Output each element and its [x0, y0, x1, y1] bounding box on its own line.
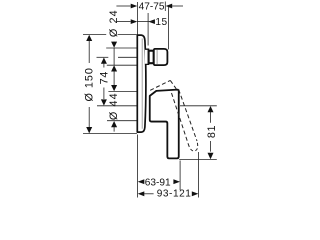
dashed lever swing: rounded tip [188, 141, 197, 151]
escutcheon plate (side view) [137, 35, 146, 132]
dashed lever swing: end edge [170, 80, 176, 89]
dimension 47-75 (top row) [116, 2, 183, 13]
wire: hub bottom extension y=120.7 [107, 120, 143, 122]
dashed lever swing: right edge [179, 90, 197, 141]
svg-text:47-75: 47-75 [139, 2, 165, 13]
wire: handle axis extension y=105.8 right [180, 105, 217, 107]
svg-text:Ø 44: Ø 44 [108, 92, 120, 120]
handle hub and lever (solid) [150, 90, 179, 159]
wire: extension line wall top x=137.4 [136, 2, 138, 35]
wire: knob axis extension y=57.3 [97, 56, 109, 58]
wire: extension line swing tip x=198.5 [198, 152, 200, 198]
svg-text:74: 74 [99, 71, 111, 85]
dashed lever swing: left edge [172, 93, 189, 144]
wire: extension line plate front x=148.1 [147, 13, 149, 46]
svg-text:81: 81 [206, 125, 218, 138]
wire: handle axis extension y=105.8 left [97, 105, 142, 107]
dimension 63-91 (bottom row 1) [138, 177, 180, 188]
diverter knob ring [149, 51, 154, 64]
diverter knob neck [145, 49, 149, 64]
diverter knob cap [154, 49, 168, 65]
svg-text:Ø 150: Ø 150 [84, 67, 96, 101]
dimension 81 (lever length, rotated) [206, 106, 218, 159]
svg-text:63-91: 63-91 [145, 177, 171, 188]
wire: hub top extension y=91.4 [108, 90, 141, 92]
wire: extension line wall bottom x=137.6 [137, 135, 139, 198]
dashed lever swing: hub top edge rotated [150, 80, 170, 90]
wire: lever bottom extension y=159.4 [179, 158, 217, 160]
dimension 93-121 (bottom row 2) [138, 189, 199, 200]
wire: plate bottom extension y=133.6 [83, 133, 137, 135]
dimension D150 (plate diameter, rotated) [84, 35, 96, 134]
wire: extension line 47-75 right x=165.3 [164, 2, 166, 12]
dimension D24 (knob diameter, rotated) [108, 9, 120, 85]
wire: extension line lever front x=180.1 [179, 161, 181, 191]
svg-text:15: 15 [155, 17, 167, 28]
wire: plate top extension y=34.6 [83, 34, 106, 36]
dimension 74 (axis distance, rotated) [99, 58, 111, 106]
plate inner face line [141, 39, 143, 129]
dimension D44 (hub diameter, rotated) [108, 85, 120, 132]
dimension 15 (second row) [116, 17, 167, 28]
wire: knob top extension y=48 [106, 47, 137, 49]
wire: leader from knob cap corner x=168.6 [168, 7, 170, 49]
svg-text:93-121: 93-121 [157, 189, 192, 200]
wire: knob bottom extension y=65.2 [107, 64, 137, 66]
svg-text:Ø 24: Ø 24 [108, 9, 120, 37]
knob cap inner line [156, 50, 158, 64]
